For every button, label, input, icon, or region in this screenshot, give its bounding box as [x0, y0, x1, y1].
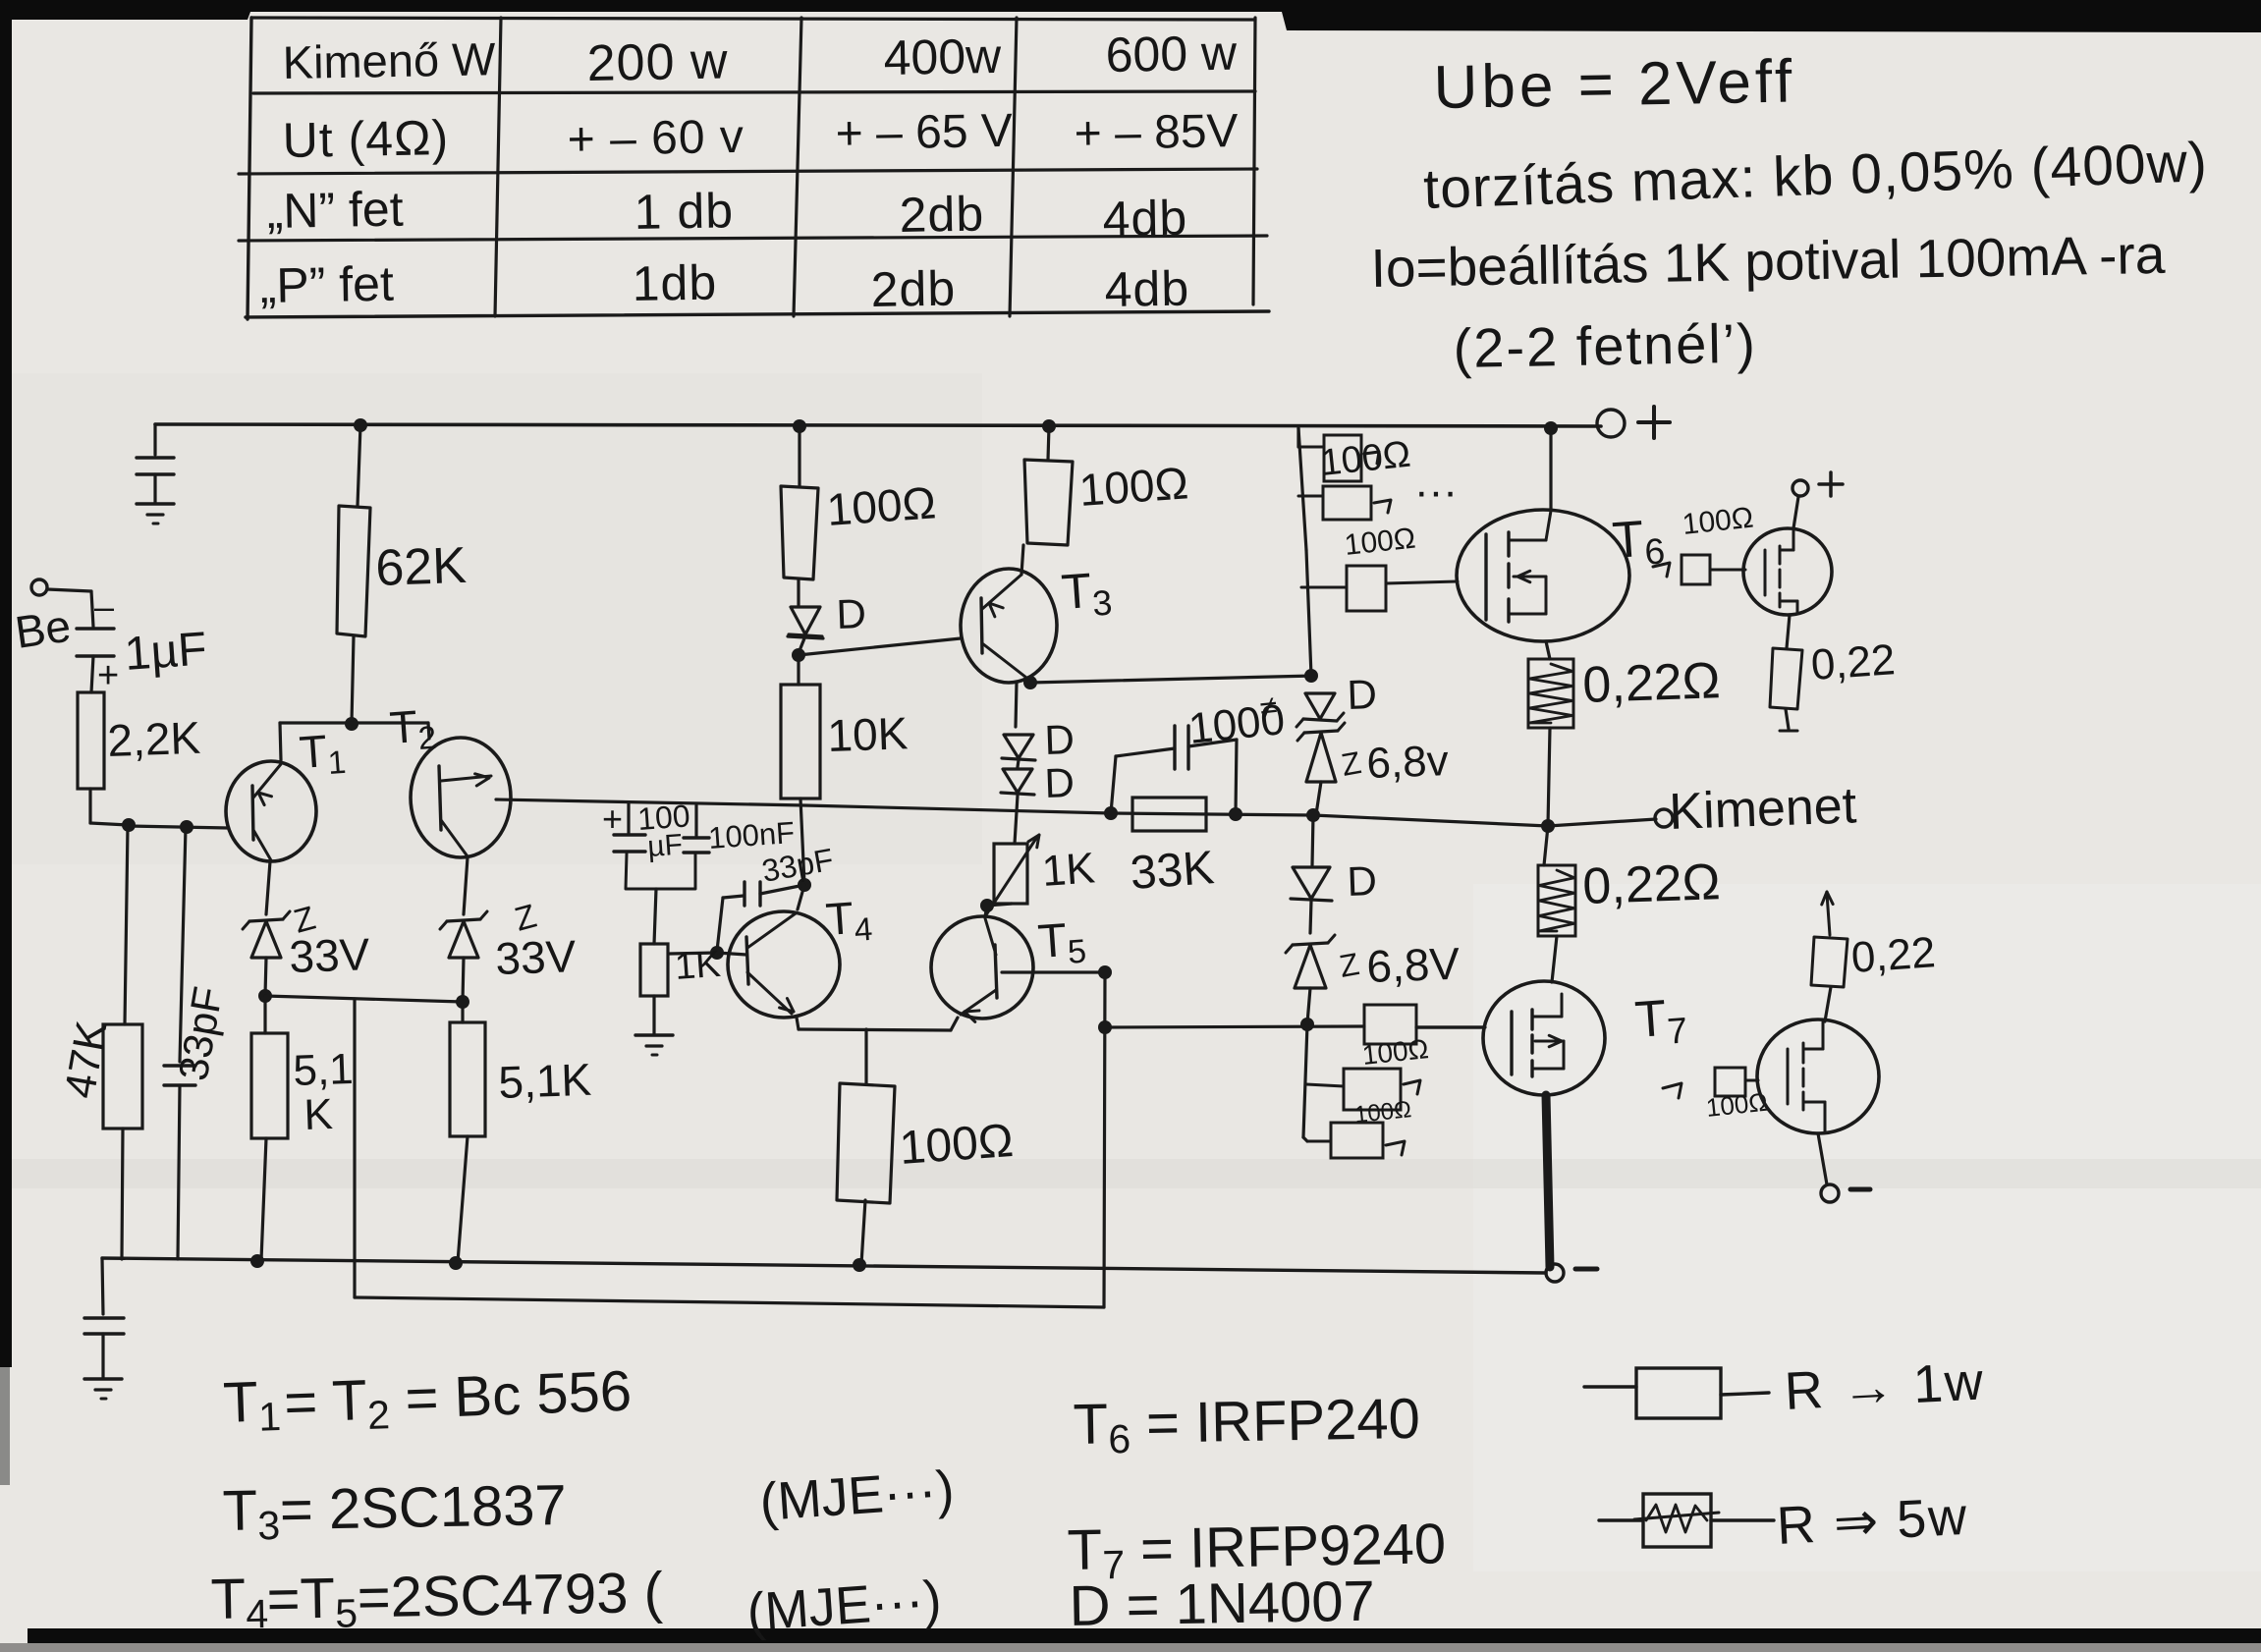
svg-text:D: D	[836, 590, 867, 637]
svg-text:D: D	[1347, 671, 1378, 718]
resistor 100R T7b	[1715, 1068, 1745, 1096]
wire node to 10K	[797, 655, 800, 685]
wire node to T4	[798, 885, 804, 909]
svg-text:33V: 33V	[289, 928, 371, 982]
legend 5W wire2	[1711, 1518, 1774, 1521]
svg-text:2db: 2db	[870, 260, 956, 317]
wire T6b source	[1787, 615, 1790, 648]
node 100R top b	[1042, 419, 1056, 433]
wire to ground	[101, 1334, 104, 1378]
resistor 33K	[1132, 798, 1206, 831]
label 5.1K T2	[498, 1054, 593, 1108]
arrow t7g2	[1404, 1080, 1420, 1094]
capacitor decoupling	[137, 458, 174, 474]
wire T4 emitter	[797, 1018, 799, 1029]
label 100R g1	[1319, 434, 1413, 484]
wire node to 5.1K T1	[263, 996, 266, 1033]
legend 1W resistor	[1636, 1368, 1721, 1418]
label Z mark T1	[290, 900, 319, 941]
node T2 zener bottom	[456, 995, 469, 1009]
node T4 collector 33p	[798, 878, 811, 892]
capacitor 100uF	[602, 798, 645, 852]
svg-text:600 w: 600 w	[1105, 26, 1238, 83]
legend 5W resistor	[1643, 1494, 1711, 1547]
resistor 100R t7g1	[1364, 1005, 1416, 1044]
label 10K	[827, 707, 910, 761]
label 0.22 T6b	[1809, 635, 1897, 689]
svg-text:33V: 33V	[495, 930, 578, 984]
resistor 100R T6b	[1682, 555, 1710, 584]
transistor T2	[411, 738, 511, 857]
resistor 62K	[337, 506, 370, 636]
resistor 2.2K	[78, 692, 104, 789]
capacitor 1uF	[77, 586, 119, 696]
wire 1K to gnd	[652, 996, 655, 1034]
label 100R T7b	[1704, 1087, 1769, 1123]
arrow T7 repeat	[1663, 1083, 1682, 1098]
svg-text:(2-2 fetnél’): (2-2 fetnél’)	[1453, 312, 1757, 379]
svg-text:200 w: 200 w	[586, 32, 729, 92]
V+ terminal +	[1597, 407, 1670, 438]
resistor 100R t7g2	[1344, 1069, 1401, 1110]
wire T5 base right	[1002, 970, 1105, 973]
transistor T6 MOSFET	[1457, 510, 1629, 641]
svg-text:0,22: 0,22	[1849, 928, 1937, 982]
node T3 emitter	[1023, 676, 1037, 689]
svg-text:···: ···	[1414, 468, 1458, 516]
node 100R top a	[793, 419, 806, 433]
resistor 100R b	[1024, 460, 1073, 545]
svg-text:+ – 65 V: + – 65 V	[835, 105, 1013, 160]
capacitor 33pF	[164, 1066, 195, 1085]
svg-text:0,22Ω: 0,22Ω	[1581, 652, 1721, 714]
label 47K	[56, 1018, 117, 1102]
label 33K	[1129, 842, 1216, 900]
label 1000pF	[1186, 688, 1287, 753]
wire cap to gnd	[153, 474, 156, 503]
label 0.22 T7	[1581, 854, 1721, 915]
zener 6.8 r4	[1286, 935, 1335, 988]
wire 100R to V-	[861, 1200, 865, 1264]
svg-text:„N” fet: „N” fet	[266, 182, 404, 239]
svg-text:100Ω: 100Ω	[898, 1115, 1015, 1175]
label 1K pot	[1040, 844, 1096, 896]
svg-text:Ut (4Ω): Ut (4Ω)	[282, 110, 449, 168]
wire caps join	[626, 854, 695, 889]
resistor 5.1K T1	[251, 1033, 288, 1138]
wire t7 vert	[1303, 1024, 1307, 1137]
wire T7b gate	[1745, 1079, 1758, 1082]
node 33K right	[1229, 807, 1242, 821]
wire D to node a	[799, 638, 804, 653]
arrow t7g3	[1386, 1141, 1405, 1155]
wire t7g2 stub	[1306, 1084, 1344, 1086]
wire 100R to D a	[797, 579, 800, 605]
label R 1W	[1783, 1351, 1986, 1421]
label Be	[12, 600, 74, 658]
transistor T7 MOSFET	[1483, 981, 1605, 1095]
node T6 drain rail	[1544, 421, 1558, 435]
svg-text:D: D	[1044, 716, 1075, 763]
label 2.2K	[107, 712, 202, 766]
label T3	[1060, 562, 1114, 626]
label 33V T2	[495, 930, 578, 984]
svg-text:+ – 60 v: + – 60 v	[567, 111, 744, 166]
node 62K top	[354, 418, 367, 432]
wire rail to 100R b	[1048, 426, 1049, 460]
wire 1K to T4 base	[670, 953, 717, 954]
wire 5.1K to V- T2	[458, 1136, 468, 1262]
label 100R t4e	[898, 1115, 1015, 1175]
label 100uF	[636, 798, 691, 863]
wire kimenet to 0.22b	[1544, 826, 1548, 865]
wire T7 drain thick	[1546, 1095, 1550, 1267]
label 1K fb	[674, 944, 722, 988]
wire T7b drain	[1818, 1133, 1827, 1184]
wire zener node link	[265, 996, 463, 1002]
resistor 1K fb	[640, 944, 668, 996]
wire rail down to D	[1312, 815, 1313, 865]
svg-text:2,2K: 2,2K	[107, 712, 202, 766]
wire R2.2K to node	[90, 789, 129, 825]
zener 33V T1	[243, 911, 290, 958]
resistor 0.22 T7b	[1811, 937, 1847, 987]
resistor 100R t7g3	[1331, 1123, 1383, 1158]
node T1 zener bottom	[258, 989, 272, 1003]
wire join to 1K	[654, 889, 656, 944]
svg-text:K: K	[303, 1090, 334, 1139]
svg-text:R → 1w: R → 1w	[1783, 1351, 1986, 1421]
transistor T3	[961, 569, 1057, 683]
mid rail to output	[496, 799, 1548, 826]
svg-text:D = 1N4007: D = 1N4007	[1069, 1569, 1375, 1638]
V- terminal -	[1546, 1264, 1597, 1282]
label 33p T4	[759, 842, 836, 889]
wire 62K to T1T2	[352, 636, 354, 723]
node 33p junction	[180, 820, 193, 834]
svg-text:–: –	[94, 586, 114, 627]
wire input	[47, 589, 93, 627]
component legend text	[210, 1359, 1447, 1642]
wire zener to node T2	[463, 958, 464, 1001]
zener 33V T2	[440, 911, 487, 958]
arrow T6 repeat	[1653, 563, 1670, 577]
wire rail to 100uF	[627, 803, 630, 833]
label T2	[388, 699, 437, 758]
wire T2 to zener	[464, 857, 468, 914]
svg-text:100nF: 100nF	[707, 815, 796, 855]
wire T6 source	[1546, 641, 1550, 659]
resistor 100R g1	[1298, 435, 1361, 481]
label 0.22 T7b	[1849, 928, 1937, 982]
legend 1W wire	[1584, 1385, 1636, 1388]
label D r1	[1347, 671, 1378, 718]
ground bottom left	[84, 1379, 122, 1399]
wire g3	[1301, 586, 1347, 589]
resistor 100R g3 T6 gate	[1347, 566, 1386, 611]
wire node to T3 base	[799, 638, 961, 655]
svg-text:6,8v: 6,8v	[1366, 737, 1450, 788]
node mid rail right	[1306, 808, 1320, 822]
ground fb	[635, 1035, 673, 1055]
svg-text:5,1: 5,1	[293, 1045, 355, 1095]
node 100R V-	[853, 1258, 866, 1272]
diode D r3	[1291, 867, 1332, 901]
svg-text:+: +	[97, 655, 119, 696]
svg-text:4db: 4db	[1102, 190, 1187, 247]
label T6	[1611, 509, 1667, 574]
wire DD to pot	[1015, 796, 1018, 844]
node 33K left	[1104, 806, 1118, 820]
wire rail to T6 drain	[1549, 428, 1552, 511]
resistor 10K	[781, 685, 820, 798]
node T1 T2 emitters	[345, 717, 358, 731]
wire rail to 100nF	[694, 805, 697, 836]
label 33pF	[170, 983, 232, 1083]
wire t7g1 to T7	[1416, 1025, 1483, 1028]
wire T7b to 0.22	[1825, 987, 1831, 1021]
legend 1W wire2	[1721, 1393, 1769, 1395]
table grid	[239, 18, 1269, 319]
potentiometer 1K	[987, 835, 1039, 913]
transistor T1	[226, 761, 316, 861]
svg-text:2db: 2db	[899, 186, 984, 243]
resistor 5.1K T2	[450, 1022, 485, 1136]
svg-text:100Ω: 100Ω	[825, 476, 937, 535]
label 100R T6b	[1681, 502, 1755, 541]
node input junction	[122, 818, 136, 832]
node T6b drain terminal	[1792, 472, 1843, 496]
legend 5W zigzag	[1634, 1505, 1719, 1532]
wire T4-T5 emitters	[799, 1018, 958, 1030]
resistor 100R t4e	[837, 1083, 895, 1203]
svg-text:0,22Ω: 0,22Ω	[1581, 854, 1721, 915]
wire pot to T5	[985, 904, 1012, 916]
wire T4e to 100R	[864, 1029, 867, 1083]
table text	[259, 26, 1239, 317]
transistor T6b repeat	[1743, 528, 1832, 615]
resistor 100R a	[781, 486, 818, 579]
V+ rail (top)	[155, 424, 1601, 426]
resistor 100R g2	[1323, 486, 1371, 520]
diode D a	[788, 607, 823, 638]
wire rail down right	[1298, 428, 1311, 676]
arrow 0.22 T7b up	[1822, 892, 1833, 935]
arrow g1	[1364, 452, 1379, 464]
resistor 0.22 T7 5W	[1538, 865, 1575, 936]
svg-text:1db: 1db	[632, 254, 717, 311]
zener D r1	[1296, 693, 1344, 727]
legend 5W wire	[1599, 1518, 1643, 1521]
wire zener to node	[1307, 988, 1310, 1023]
svg-text:Ube = 2Veff: Ube = 2Veff	[1433, 48, 1796, 122]
zener 6.8 r2	[1297, 723, 1345, 782]
label 100R t7g2	[1353, 1096, 1412, 1129]
wire zener to rail	[1316, 782, 1321, 814]
wire T5 base net to gate	[1105, 1026, 1364, 1027]
resistor 47K	[103, 1024, 142, 1129]
wire T1 to zener	[266, 861, 270, 914]
svg-text:„P” fet: „P” fet	[259, 256, 394, 313]
wire 33p right	[760, 885, 804, 894]
node minus terminal T7b	[1821, 1184, 1870, 1202]
node T7 gate net	[1300, 1018, 1314, 1031]
wire DD mid	[1018, 760, 1019, 767]
node 5.1K V- T2	[449, 1256, 463, 1270]
output wire Kimenet	[1548, 819, 1656, 826]
label 5.1K T1	[293, 1045, 355, 1139]
label 6.8V r2	[1339, 737, 1450, 788]
secondary lower rail	[355, 1297, 1104, 1307]
transistor T7b repeat	[1757, 1019, 1879, 1133]
node kimenet junction	[1541, 819, 1555, 833]
label 100R b	[1077, 457, 1189, 516]
wire 1000p right	[1188, 740, 1237, 813]
wire node to T1 base	[129, 826, 228, 828]
wire g2	[1298, 495, 1323, 498]
svg-text:1µF: 1µF	[123, 623, 208, 681]
wire T6b source end	[1780, 709, 1797, 731]
label T5	[1036, 913, 1087, 973]
handwritten notes top right	[1370, 48, 2209, 379]
wire base to T4	[717, 953, 746, 955]
svg-text:1K: 1K	[1040, 844, 1096, 896]
node T5 collector	[980, 899, 994, 912]
resistor 0.22 T6b	[1770, 648, 1802, 709]
wire T3 collector up	[1021, 545, 1023, 575]
capacitor bottom left	[84, 1318, 124, 1334]
svg-text:10K: 10K	[827, 707, 910, 761]
wire 33p left	[717, 896, 744, 951]
wire 5.1K to V- T1	[261, 1138, 266, 1260]
label D b2	[1044, 759, 1075, 806]
label Kimenet	[1668, 777, 1857, 841]
wire T3e to DD	[1016, 683, 1017, 727]
wire 1000p left	[1111, 748, 1175, 813]
svg-text:62K: 62K	[374, 537, 468, 597]
wire node to 5.1K T2	[461, 1002, 464, 1022]
wire cap to R2.2K	[91, 656, 93, 692]
label T4	[824, 891, 873, 950]
node D 6.8 top	[1304, 669, 1318, 683]
svg-text:Kimenet: Kimenet	[1668, 777, 1857, 841]
svg-text:≠: ≠	[1258, 688, 1279, 726]
wire rail to 100R a	[798, 426, 800, 486]
node T4 base	[710, 946, 724, 960]
svg-text:D: D	[1044, 759, 1075, 806]
wire 33p down	[180, 827, 186, 1062]
svg-text:+ – 85V: + – 85V	[1074, 105, 1239, 160]
node lower gate wire	[1098, 1020, 1112, 1034]
transistor T4	[728, 911, 840, 1018]
label 62K	[374, 537, 468, 597]
label R 5W	[1775, 1487, 1969, 1556]
label 100R t7g1	[1360, 1033, 1430, 1071]
svg-text:Be: Be	[12, 600, 74, 658]
svg-text:5,1K: 5,1K	[498, 1054, 593, 1108]
wire 10K down to T4 collector	[800, 798, 804, 884]
svg-text:0,22: 0,22	[1809, 635, 1897, 689]
svg-text:6,8V: 6,8V	[1366, 938, 1461, 992]
label 100R a	[825, 476, 937, 535]
wire x1124 down	[1104, 972, 1105, 1307]
wire T6b gate	[1710, 569, 1745, 572]
svg-text:100Ω: 100Ω	[1077, 457, 1189, 516]
wire 0.22 to kimenet	[1548, 728, 1550, 825]
svg-text:1 db: 1 db	[634, 183, 734, 240]
wire 33p to V-	[178, 1085, 180, 1259]
wire node down to 47K	[125, 826, 128, 1024]
svg-text:4db: 4db	[1104, 260, 1189, 317]
node T3 base junction	[792, 648, 805, 662]
transistor T5	[931, 916, 1033, 1021]
svg-text:D: D	[1347, 857, 1378, 905]
label D b1	[1044, 716, 1075, 763]
wire T7 gate	[1416, 1025, 1485, 1028]
label 100nF	[707, 815, 796, 855]
node T5 base ext	[1098, 965, 1112, 979]
wire V- left end down	[102, 1258, 103, 1314]
ground top left	[137, 504, 174, 523]
wire zener to node T1	[265, 958, 266, 995]
wire emitter coupling	[280, 723, 429, 760]
wire T6b to terminal	[1793, 497, 1798, 528]
resistor 0.22 T6 5W	[1528, 659, 1573, 728]
label 6.8V r4	[1337, 938, 1461, 992]
node Be input terminal	[31, 579, 47, 595]
V- rail (bottom)	[102, 1258, 1546, 1273]
capacitor 100nF	[684, 838, 709, 853]
wire T3 emitter line	[1030, 676, 1314, 683]
svg-text:µF: µF	[646, 829, 684, 863]
label 1uF	[123, 623, 208, 681]
node 5.1K V- T1	[250, 1254, 264, 1268]
label D a	[836, 590, 867, 637]
capacitor 1000pF	[1175, 726, 1188, 769]
label Z mark T2	[511, 898, 540, 939]
capacitor 33pF T4	[744, 882, 760, 906]
diode D b1	[1002, 735, 1035, 760]
label 100R g2	[1343, 523, 1417, 562]
svg-text:R ⇒ 5w: R ⇒ 5w	[1775, 1487, 1969, 1556]
label T7	[1633, 988, 1689, 1053]
wire 0.22b to T7	[1552, 936, 1557, 982]
label D r3	[1347, 857, 1378, 905]
wire gate res vertical	[1296, 428, 1299, 447]
wire rail to 62K	[358, 425, 360, 506]
node Kimenet terminal	[1655, 809, 1673, 827]
svg-text:400w: 400w	[883, 28, 1002, 85]
svg-text:1K: 1K	[674, 944, 722, 988]
wire g3 to T6	[1386, 581, 1458, 583]
wire 47K to V-	[122, 1129, 123, 1259]
wire link down x361	[353, 999, 356, 1297]
label 33V T1	[289, 928, 371, 982]
wire D to zener r4	[1310, 901, 1311, 933]
wire t7g3 stub	[1303, 1137, 1331, 1141]
diode D b2	[1001, 769, 1034, 795]
svg-text:33K: 33K	[1129, 842, 1216, 900]
svg-text:+: +	[602, 798, 623, 839]
wire rail to cap	[153, 424, 156, 455]
label T1	[298, 724, 347, 783]
svg-text:Kimenő W: Kimenő W	[282, 32, 496, 88]
label 0.22 T6	[1581, 652, 1721, 714]
arrow g2	[1374, 468, 1458, 516]
